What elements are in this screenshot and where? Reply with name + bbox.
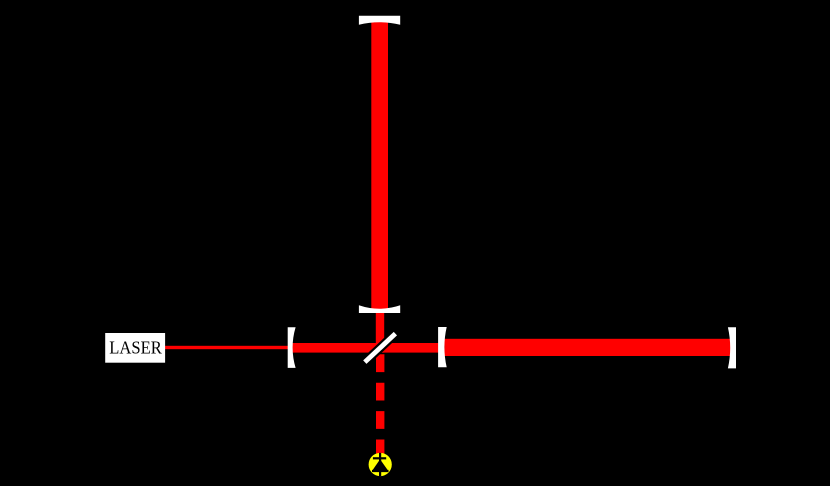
- vertical arm end mirror (top, concave down): [359, 16, 400, 25]
- svg-text:LASER: LASER: [109, 338, 162, 358]
- horizontal arm end mirror (concave left): [728, 327, 736, 368]
- photodetector (photodiode in yellow circle): [369, 453, 392, 476]
- wire: recycling cavity beam (PRM through beamsplitter to arm input mirror): [292, 343, 439, 353]
- wire: dashed dark-port beam to photodetector: [376, 354, 384, 453]
- vertical arm input mirror (concave up): [359, 305, 400, 313]
- power recycling mirror (plano-concave, concave right): [288, 327, 296, 368]
- laser source box: [105, 333, 165, 363]
- wire: input beam from laser to power recycling mirror: [165, 346, 289, 349]
- wire: horizontal arm cavity beam (thick): [445, 339, 732, 356]
- wire: vertical medium beam (beamsplitter to vertical-arm input mirror): [376, 310, 384, 353]
- beamsplitter (45-degree plate): [362, 330, 399, 365]
- wire: vertical arm cavity beam (thick): [371, 18, 388, 311]
- horizontal arm input mirror (concave right): [438, 327, 447, 367]
